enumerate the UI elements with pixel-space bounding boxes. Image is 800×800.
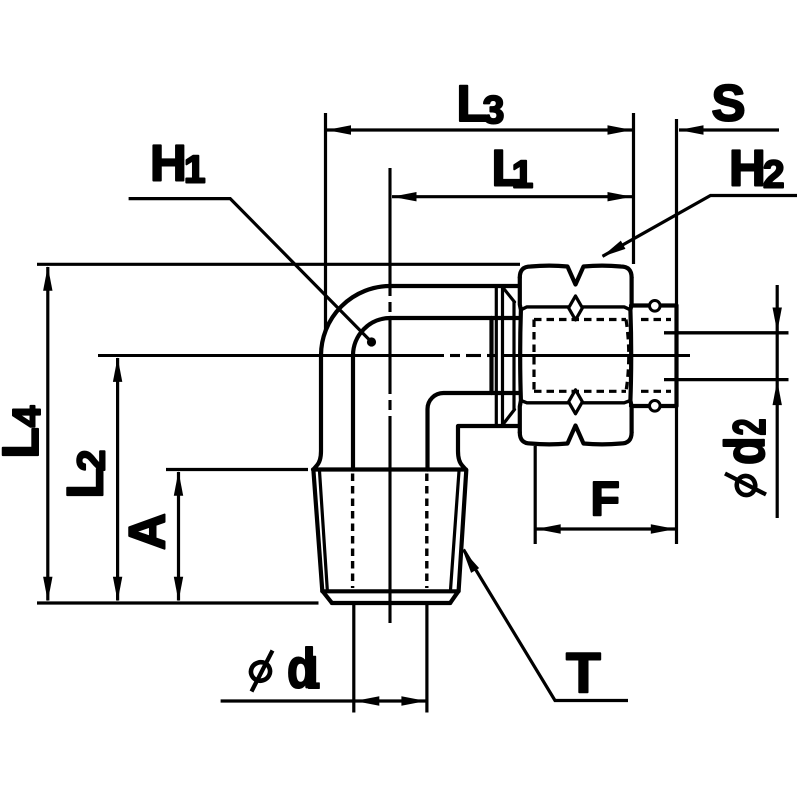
svg-text:1: 1: [307, 647, 320, 698]
svg-text:A: A: [119, 513, 176, 550]
svg-text:S: S: [712, 75, 746, 132]
svg-text:2: 2: [724, 419, 775, 436]
svg-text:d: d: [713, 437, 776, 466]
svg-text:T: T: [566, 641, 601, 705]
svg-text:F: F: [591, 473, 620, 526]
svg-text:L4: L4: [0, 405, 49, 458]
